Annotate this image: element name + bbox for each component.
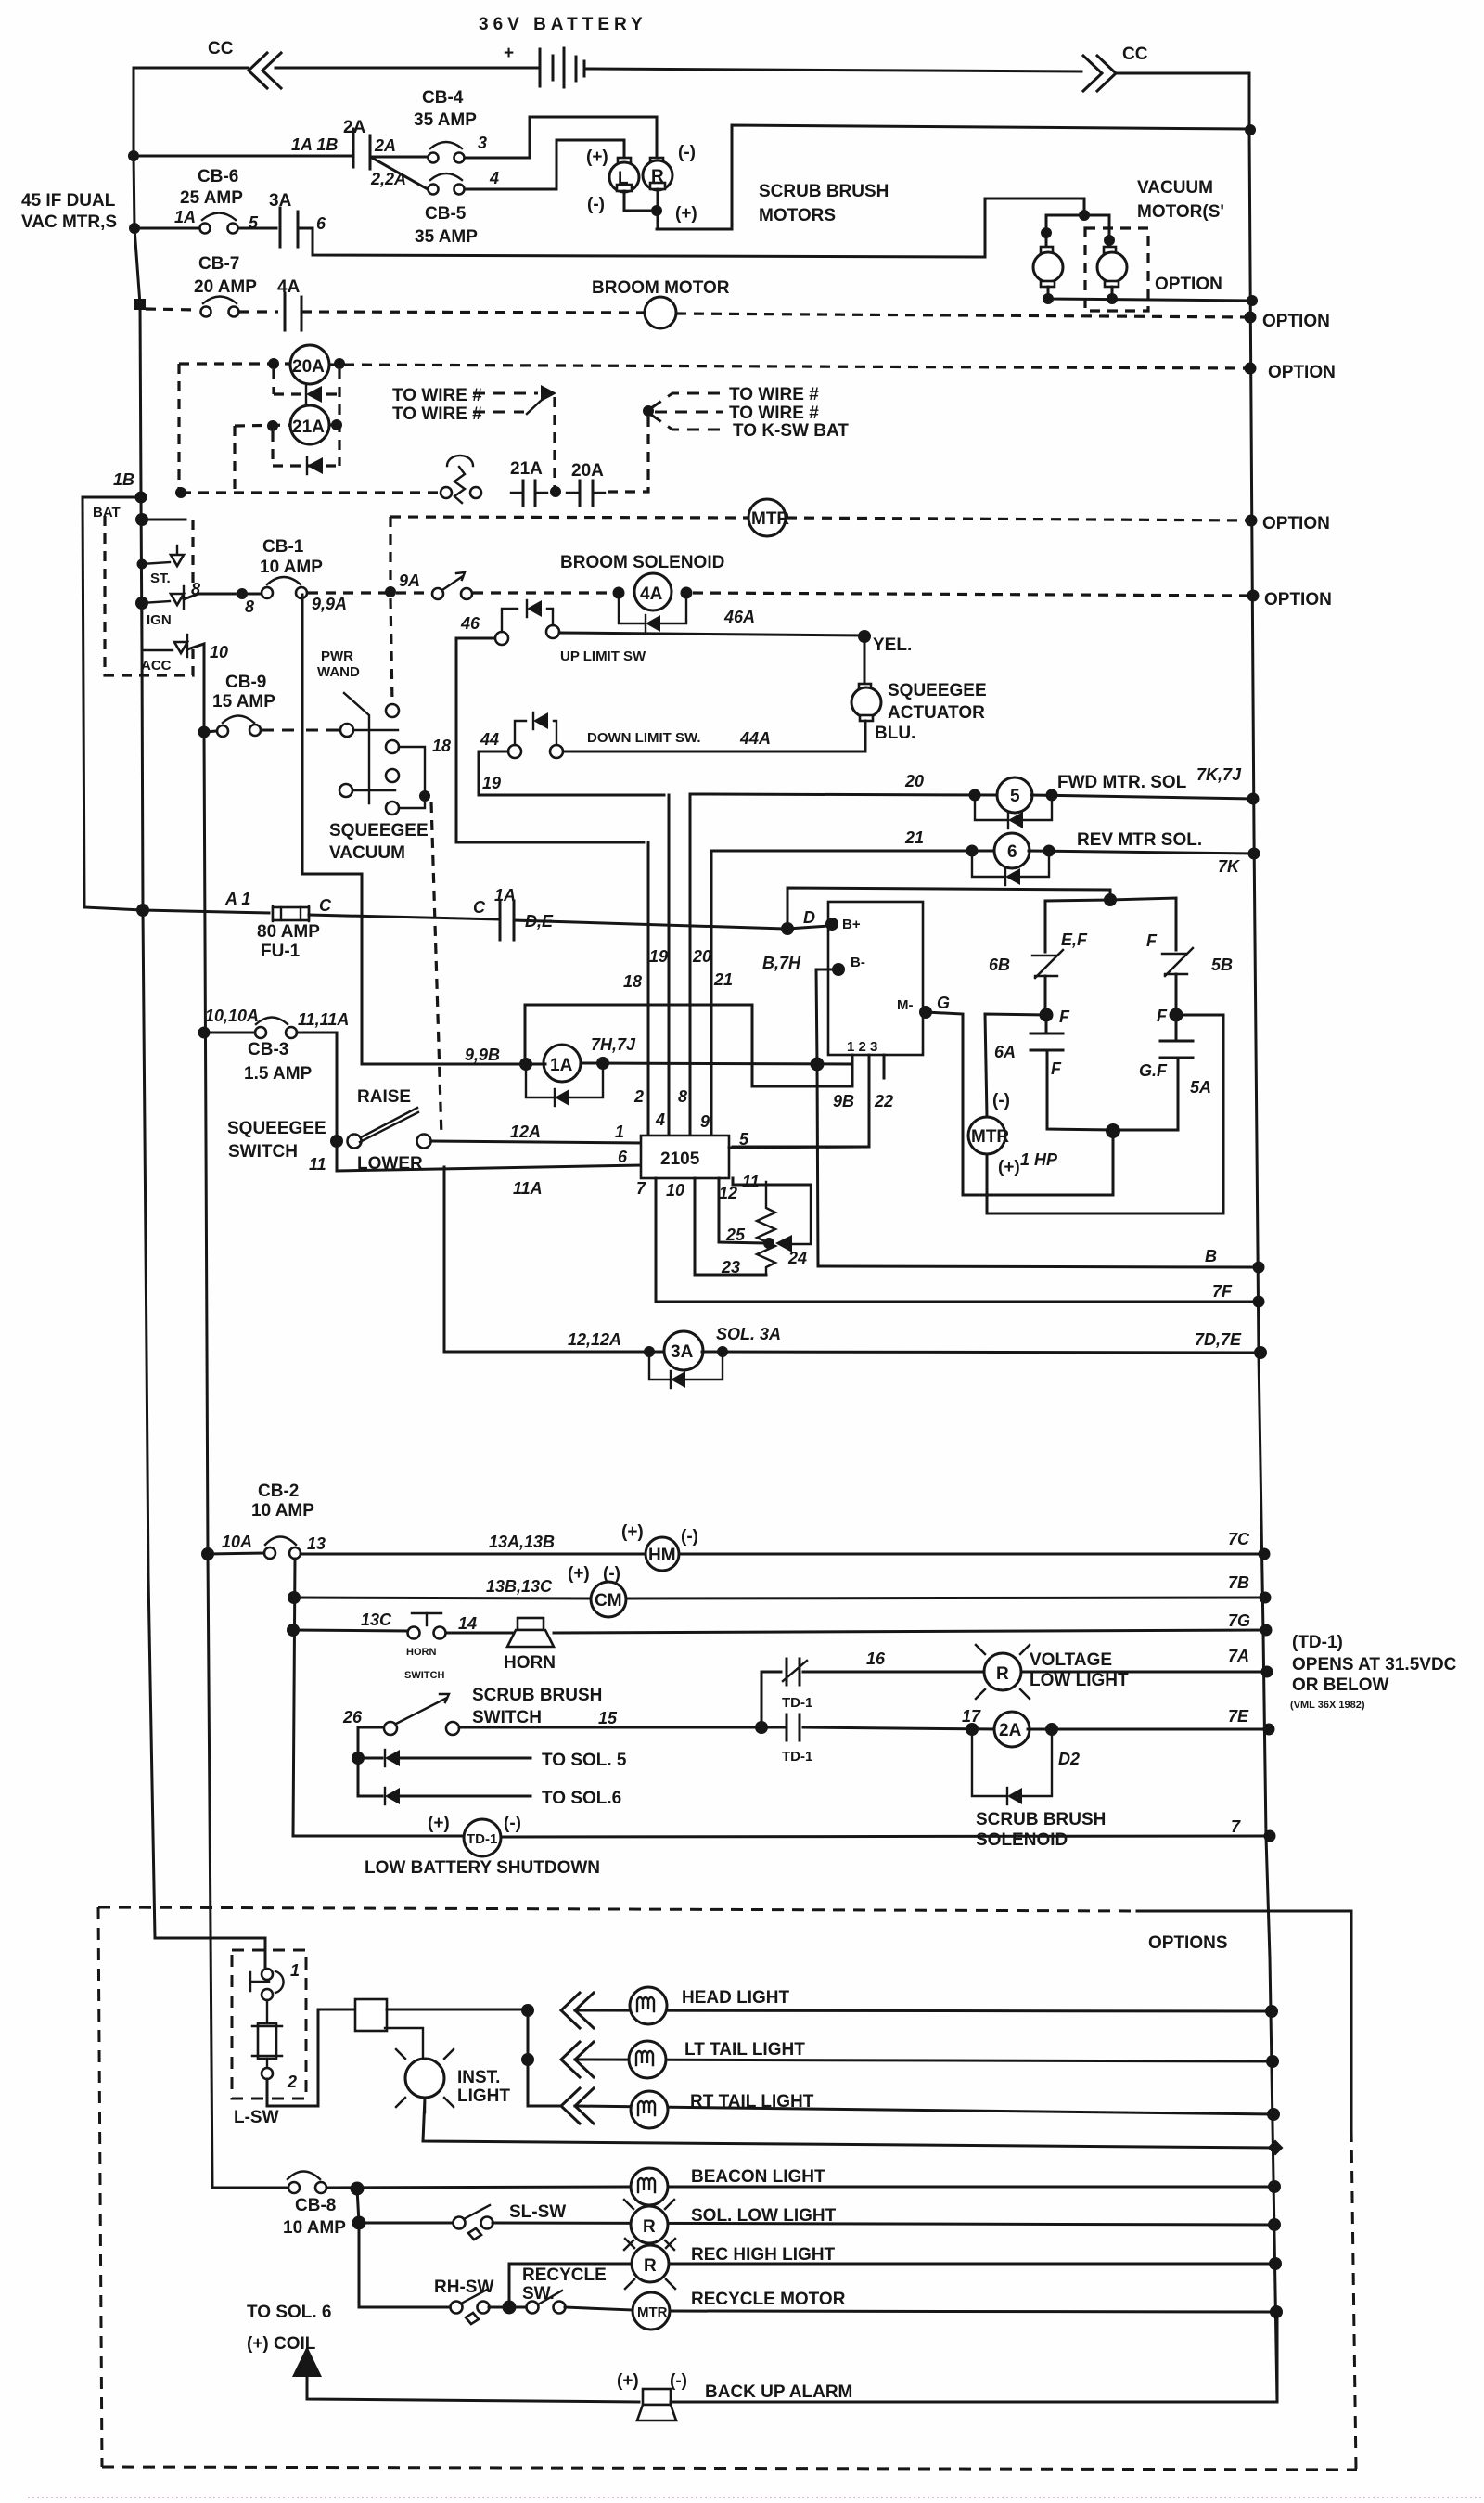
wire inst light tap: [385, 2028, 423, 2059]
svg-text:35 AMP: 35 AMP: [415, 227, 478, 247]
node B+: [825, 918, 838, 931]
node 7B on bus: [1260, 1592, 1272, 1604]
wire down to SL row: [357, 2189, 359, 2223]
wire MTR top to F: [985, 1014, 1046, 1117]
svg-text:R: R: [996, 1664, 1009, 1684]
actuator squeegee: [859, 684, 871, 689]
motor R scrub: [650, 158, 663, 164]
breaker CB-2: [208, 1553, 264, 1554]
svg-text:7H,7J: 7H,7J: [591, 1035, 636, 1054]
node 1A right: [596, 1057, 609, 1070]
relay coil 21A: [290, 405, 329, 444]
breaker CB-7: [203, 297, 237, 304]
node vacuum split: [1079, 210, 1090, 221]
capacitor 21A contact: [522, 481, 525, 506]
svg-text:9A: 9A: [399, 571, 420, 590]
svg-text:MOTOR(S': MOTOR(S': [1137, 202, 1224, 222]
svg-text:11,11A: 11,11A: [298, 1010, 349, 1029]
node F left: [1040, 1008, 1054, 1022]
node 7C on bus: [1259, 1548, 1271, 1560]
node 3A left: [644, 1346, 655, 1357]
lamp RT tail: [631, 2091, 668, 2128]
node YEL: [858, 630, 871, 643]
contact ST: [171, 555, 184, 566]
contactor 6B: [1032, 955, 1056, 956]
svg-text:LOW BATTERY SHUTDOWN: LOW BATTERY SHUTDOWN: [365, 1858, 600, 1878]
wire 46A to YEL: [559, 633, 864, 635]
breaker CB-4: [430, 142, 462, 148]
svg-text:SQUEEGEE: SQUEEGEE: [227, 1119, 326, 1138]
wire 3A to bus: [702, 1352, 1260, 1353]
svg-text:(+): (+): [675, 204, 697, 224]
svg-text:SOL. 3A: SOL. 3A: [716, 1325, 781, 1343]
node wiper: [763, 1238, 774, 1249]
svg-text:FWD MTR. SOL: FWD MTR. SOL: [1057, 773, 1187, 792]
svg-text:(+): (+): [621, 1522, 644, 1542]
svg-text:OPTION: OPTION: [1268, 363, 1336, 382]
node head light: [521, 2004, 534, 2017]
wire 20 vertical: [689, 794, 692, 1136]
wire dashed key switch row: [181, 491, 441, 494]
svg-text:RAISE: RAISE: [357, 1087, 411, 1107]
wire 21 row: [711, 850, 996, 853]
svg-text:(-): (-): [681, 1527, 698, 1547]
node MTR return junction: [1106, 1123, 1120, 1138]
svg-text:IGN: IGN: [147, 612, 172, 628]
diode D-sol5: [975, 801, 1007, 820]
svg-text:1A 1B: 1A 1B: [291, 135, 338, 154]
relay coil 20A: [290, 345, 329, 384]
svg-text:2105: 2105: [660, 1149, 700, 1169]
contact ACC: [174, 642, 187, 653]
svg-text:10,10A: 10,10A: [205, 1007, 259, 1025]
node RT on bus: [1267, 2108, 1280, 2121]
svg-text:21A: 21A: [510, 459, 543, 479]
right bus vertical: [1249, 131, 1277, 2402]
wire down to RH row: [358, 2223, 361, 2307]
node vac return on bus: [1247, 295, 1258, 306]
svg-text:44A: 44A: [739, 729, 771, 748]
svg-text:RECYCLE: RECYCLE: [522, 2266, 607, 2285]
svg-text:REV MTR SOL.: REV MTR SOL.: [1077, 830, 1202, 850]
wire 1B to left drop: [83, 497, 141, 907]
svg-text:CB-8: CB-8: [295, 2196, 336, 2215]
svg-text:LOW LIGHT: LOW LIGHT: [1030, 1671, 1129, 1690]
wire RH row: [359, 2306, 451, 2309]
wire broom motor dashed left: [239, 310, 278, 313]
wire C segment: [309, 915, 499, 919]
switch down limit SW: [508, 745, 521, 758]
node 7F on bus: [1253, 1296, 1265, 1308]
node M- G: [919, 1006, 932, 1019]
options box bottom dashed: [102, 2467, 1357, 2470]
svg-text:TO SOL. 6: TO SOL. 6: [247, 2303, 332, 2322]
svg-text:2A: 2A: [374, 136, 396, 155]
wire dashed bundle down-right: [651, 415, 728, 430]
svg-text:7G: 7G: [1228, 1611, 1250, 1630]
svg-text:8: 8: [245, 597, 254, 616]
fuse FU-1: [272, 906, 274, 921]
diode D-downlimit: [515, 721, 526, 745]
node 1A row B junction: [811, 1058, 825, 1072]
wire to ACC contact: [142, 603, 173, 650]
wire to vac motor 1: [1046, 215, 1084, 252]
svg-text:CB-3: CB-3: [248, 1040, 288, 1059]
contact TD-1 row17: [786, 1714, 788, 1740]
capacitor 5A contact: [1175, 1015, 1178, 1040]
connector CC left chevrons: [249, 53, 281, 88]
svg-text:4: 4: [655, 1110, 665, 1129]
svg-text:21A: 21A: [292, 417, 325, 437]
svg-text:RH-SW: RH-SW: [434, 2278, 493, 2297]
wire sol5 to bus: [1031, 795, 1253, 799]
svg-text:F: F: [1146, 931, 1158, 950]
svg-text:1A: 1A: [550, 1056, 573, 1075]
svg-text:RT TAIL LIGHT: RT TAIL LIGHT: [690, 2092, 814, 2112]
svg-text:20A: 20A: [571, 461, 604, 481]
wire pin12 to wiper: [719, 1178, 764, 1243]
svg-text:D2: D2: [1058, 1750, 1080, 1768]
wire broom motor dashed right: [676, 314, 1250, 317]
svg-text:7K,7J: 7K,7J: [1196, 765, 1242, 784]
diode D-1A bypass: [526, 1070, 554, 1097]
switch broom S2: [432, 588, 443, 599]
svg-text:7E: 7E: [1228, 1707, 1249, 1726]
svg-text:9,9B: 9,9B: [465, 1046, 500, 1064]
arrow to sol6 coil: [292, 2346, 322, 2377]
svg-text:19: 19: [482, 774, 501, 792]
wire inst light return: [423, 2098, 1275, 2148]
node F right: [1170, 1008, 1183, 1022]
contactor 5B: [1162, 953, 1186, 955]
diode D-21A bypass: [273, 464, 339, 467]
svg-text:1 HP: 1 HP: [1020, 1150, 1058, 1169]
wire TD1 to bus: [501, 1836, 1270, 1837]
svg-text:23: 23: [721, 1258, 740, 1277]
svg-text:13C: 13C: [361, 1611, 392, 1629]
svg-text:12A: 12A: [510, 1123, 541, 1141]
svg-text:A 1: A 1: [224, 890, 250, 908]
node beacon tap: [351, 2182, 365, 2196]
wire dashed bundle up-right: [651, 393, 723, 408]
svg-text:(+): (+): [586, 148, 608, 167]
wire 24 wiper arrow: [790, 1185, 811, 1244]
node horn row tap: [287, 1624, 300, 1637]
node sol6 left: [966, 845, 979, 857]
options box left dashed: [98, 1907, 102, 2467]
wire motor R bottom: [657, 189, 659, 229]
wire 12A row: [431, 1141, 641, 1143]
switch key S1: [447, 456, 473, 466]
svg-text:SQUEEGEE: SQUEEGEE: [888, 681, 987, 700]
svg-text:1.5 AMP: 1.5 AMP: [244, 1064, 313, 1084]
svg-text:14: 14: [458, 1614, 477, 1633]
svg-text:1B: 1B: [113, 470, 134, 489]
svg-text:7C: 7C: [1228, 1530, 1250, 1548]
switch horn push: [408, 1627, 420, 1639]
svg-text:B-: B-: [851, 955, 865, 970]
svg-text:7: 7: [1231, 1817, 1241, 1836]
motor vacuum 1: [1041, 247, 1053, 253]
svg-text:4: 4: [489, 169, 499, 187]
relay coil 6 rev: [994, 833, 1030, 868]
GROUP C : key switch / CB-1 / limit switches: [83, 470, 1332, 1136]
svg-text:2A: 2A: [999, 1721, 1022, 1740]
wire 6 vacuum feed: [298, 199, 1084, 257]
svg-text:WAND: WAND: [317, 664, 360, 680]
wire 10 vertical ACC to CB-8: [204, 732, 212, 2188]
svg-text:OPENS AT 31.5VDC: OPENS AT 31.5VDC: [1292, 1655, 1457, 1675]
svg-text:5: 5: [1010, 787, 1020, 806]
svg-text:CB-6: CB-6: [198, 167, 238, 186]
wire beacon to bus: [668, 2186, 1274, 2189]
svg-text:19: 19: [649, 947, 668, 966]
svg-text:BACK UP ALARM: BACK UP ALARM: [705, 2382, 852, 2402]
svg-text:C: C: [319, 896, 332, 915]
wire to right bus corner: [1116, 73, 1249, 131]
node wire8: [237, 588, 248, 599]
node return on bus: [1268, 2140, 1284, 2156]
svg-text:18: 18: [623, 972, 642, 991]
svg-text:BEACON LIGHT: BEACON LIGHT: [691, 2167, 825, 2187]
svg-text:10A: 10A: [222, 1533, 252, 1551]
wire BLU to 44A: [563, 721, 865, 751]
capacitor 3A contact: [279, 208, 282, 247]
svg-text:45 IF DUAL: 45 IF DUAL: [21, 191, 116, 211]
wire 2A to bus: [1028, 1728, 1269, 1731]
svg-text:11A: 11A: [513, 1179, 543, 1198]
wire 11A down to 3A row: [443, 1167, 446, 1352]
node vac motor2 top: [1104, 235, 1115, 246]
wire MTR bottom loop to right F: [987, 1015, 1223, 1213]
node REC on bus: [1269, 2257, 1282, 2270]
node sol5 right: [1046, 789, 1058, 802]
wire contactor top right: [1110, 898, 1176, 950]
lamp LT tail: [629, 2041, 666, 2078]
svg-text:36V BATTERY: 36V BATTERY: [479, 15, 647, 34]
svg-text:10: 10: [210, 643, 228, 661]
wire top bus right: [586, 69, 1081, 71]
wire HM to bus: [679, 1553, 1264, 1556]
node bus row2: [129, 223, 140, 234]
contact TD-1 row16: [786, 1659, 788, 1685]
wire down to LT row: [527, 2010, 530, 2060]
wire D up and over to contactors: [787, 888, 1110, 929]
node A1 junction: [136, 904, 149, 917]
svg-text:CC: CC: [1122, 45, 1148, 64]
node SL tap: [352, 2216, 366, 2230]
svg-text:(TD-1): (TD-1): [1292, 1633, 1343, 1652]
node box corner: [175, 487, 186, 498]
node recycle tap: [503, 2301, 517, 2315]
node 20A right: [334, 358, 345, 369]
node ST tap: [137, 559, 147, 570]
svg-text:CB-5: CB-5: [425, 204, 467, 224]
wire dashed squeegee sw feed: [431, 802, 441, 1136]
svg-text:TD-1: TD-1: [782, 1749, 812, 1765]
wire G to MTR loop: [926, 1012, 1113, 1195]
svg-text:2,2A: 2,2A: [370, 170, 406, 188]
wire 20 row: [690, 794, 999, 795]
GROUP F : CB-2 rows: [143, 732, 1457, 2188]
wire 13 drop: [293, 1559, 295, 1836]
svg-text:13: 13: [307, 1534, 326, 1553]
meter CM: [591, 1582, 626, 1617]
svg-text:F: F: [1051, 1059, 1062, 1078]
wire CB-7 dashes: [146, 309, 198, 310]
wire SL row: [359, 2222, 454, 2225]
svg-text:OPTION: OPTION: [1264, 590, 1332, 610]
svg-text:OPTIONS: OPTIONS: [1148, 1933, 1228, 1953]
node switch loop: [419, 790, 430, 802]
node SL on bus: [1268, 2218, 1281, 2231]
svg-text:26: 26: [342, 1708, 363, 1726]
wire TD1 shutdown row: [293, 1835, 462, 1838]
wire motor L bottom: [624, 191, 657, 211]
wire switch loop: [399, 747, 425, 808]
svg-text:TO WIRE #: TO WIRE #: [729, 385, 819, 404]
svg-text:12,12A: 12,12A: [568, 1330, 621, 1349]
svg-text:CB-1: CB-1: [262, 537, 304, 557]
wire 9,9B row: [362, 1063, 545, 1066]
wire left bus lower: [143, 910, 155, 1938]
node 7G on bus: [1260, 1624, 1273, 1637]
wire 15: [459, 1726, 784, 1729]
svg-text:(-): (-): [678, 143, 696, 162]
key switch box dashed: [105, 516, 193, 675]
wire 4 to motor L: [465, 140, 624, 189]
switch recycle: [527, 2302, 539, 2314]
wire B- down: [816, 969, 838, 1064]
wire to ST contact: [142, 562, 170, 564]
breaker CB-5: [430, 173, 462, 180]
svg-text:11: 11: [742, 1173, 760, 1191]
node 7 on bus: [1264, 1830, 1276, 1842]
wire pin2 22: [733, 1055, 869, 1147]
svg-text:6A: 6A: [994, 1043, 1016, 1061]
svg-text:SCRUB BRUSH: SCRUB BRUSH: [759, 182, 889, 201]
svg-text:9: 9: [700, 1112, 710, 1131]
svg-text:LT TAIL LIGHT: LT TAIL LIGHT: [684, 2040, 805, 2060]
node 9A option on bus: [1247, 590, 1260, 602]
wire 3A row left: [444, 1351, 666, 1354]
node to-wire right bundle: [643, 405, 654, 417]
node 20A option on bus: [1245, 363, 1257, 375]
node 9A dash vertical: [385, 586, 396, 597]
node 3A right: [717, 1346, 728, 1357]
svg-text:TD-1: TD-1: [467, 1831, 497, 1847]
svg-text:OPTION: OPTION: [1262, 514, 1330, 533]
node contactor split: [1104, 893, 1117, 906]
svg-text:20 AMP: 20 AMP: [194, 277, 257, 297]
svg-text:1: 1: [615, 1123, 624, 1141]
node CB-9 tap: [198, 726, 211, 738]
wire dashed vertical to key row: [553, 397, 556, 490]
svg-text:B,7H: B,7H: [762, 954, 801, 972]
diode D-4A bypass: [619, 598, 645, 623]
potentiometer speed: [757, 1182, 775, 1275]
svg-text:BLU.: BLU.: [875, 724, 915, 743]
wire to vac motor 2: [1084, 215, 1109, 252]
wire dashed 20A row: [179, 362, 293, 365]
breaker CB-3: [204, 1032, 255, 1034]
contact IGN: [171, 594, 184, 605]
breaker CB-6: [202, 213, 236, 221]
capacitor 20A contact: [579, 481, 582, 506]
node recycle on bus: [1270, 2305, 1283, 2318]
svg-text:CB-2: CB-2: [258, 1482, 299, 1501]
node motors junction: [651, 205, 662, 216]
svg-text:10 AMP: 10 AMP: [260, 558, 323, 577]
node bus row1: [128, 150, 139, 161]
svg-text:20A: 20A: [292, 357, 325, 377]
svg-text:(-): (-): [504, 1814, 521, 1833]
svg-text:20: 20: [692, 947, 711, 966]
wire dashed to-wire arrow 1: [473, 392, 538, 395]
breaker CB-8: [288, 2172, 320, 2180]
svg-text:TO WIRE #: TO WIRE #: [392, 386, 482, 405]
svg-text:4A: 4A: [277, 277, 301, 297]
svg-text:(+): (+): [428, 1814, 450, 1833]
svg-text:TO WIRE #: TO WIRE #: [729, 404, 819, 423]
svg-text:2: 2: [633, 1087, 644, 1106]
wire LT row: [575, 2060, 1273, 2061]
svg-text:SOLENOID: SOLENOID: [976, 1830, 1068, 1850]
node BAT tap: [135, 513, 148, 526]
node sol5 left: [969, 789, 981, 802]
capacitor 2A contact: [352, 129, 355, 167]
wire dashed after 20A cap: [608, 415, 648, 492]
switch up limit SW: [495, 632, 508, 645]
svg-text:G: G: [937, 994, 950, 1012]
timer TD-1: [464, 1819, 501, 1856]
wire dashed 21A row: [235, 425, 293, 426]
svg-text:7F: 7F: [1212, 1282, 1233, 1301]
svg-text:(-): (-): [992, 1091, 1010, 1110]
svg-text:C: C: [473, 898, 486, 917]
svg-text:9,9A: 9,9A: [312, 595, 347, 613]
svg-text:OR BELOW: OR BELOW: [1292, 1675, 1389, 1695]
wire 5: [238, 227, 276, 230]
svg-text:21: 21: [713, 970, 733, 989]
wire 16 to R light: [803, 1671, 984, 1674]
svg-text:(+): (+): [568, 1564, 590, 1584]
options box right edge: [1137, 1911, 1351, 2130]
svg-text:10 AMP: 10 AMP: [283, 2218, 346, 2238]
node rev on bus: [1248, 848, 1260, 860]
motor MTR 1HP: [968, 1117, 1005, 1154]
svg-text:ACC: ACC: [141, 658, 172, 674]
svg-text:17: 17: [962, 1707, 981, 1726]
node 7D7E on bus: [1254, 1346, 1267, 1359]
wire pin10 to pot bottom: [695, 1178, 766, 1275]
switch RH-SW: [451, 2302, 463, 2314]
svg-text:(+): (+): [998, 1158, 1020, 1177]
svg-text:TO SOL. 5: TO SOL. 5: [542, 1751, 627, 1770]
svg-text:25 AMP: 25 AMP: [180, 188, 243, 208]
svg-text:15 AMP: 15 AMP: [212, 692, 275, 712]
svg-text:B+: B+: [842, 917, 861, 932]
relay coil 5 fwd: [997, 777, 1032, 813]
wire 13 row HM: [301, 1553, 644, 1556]
options box top dashed: [98, 1907, 1137, 1911]
svg-text:SL-SW: SL-SW: [509, 2202, 566, 2222]
svg-text:DOWN LIMIT SW.: DOWN LIMIT SW.: [587, 730, 700, 746]
battery B1: [540, 48, 584, 87]
svg-text:CM: CM: [595, 1591, 622, 1611]
motor vacuum 2: [1104, 247, 1116, 253]
svg-text:RECYCLE MOTOR: RECYCLE MOTOR: [691, 2290, 846, 2309]
